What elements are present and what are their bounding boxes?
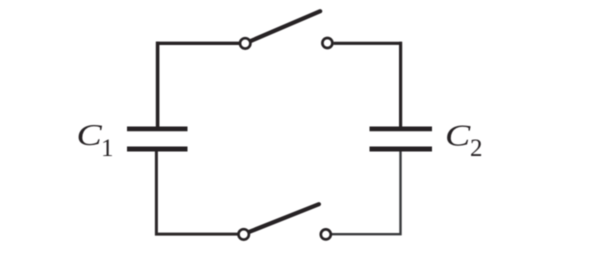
wire top-left horizontal — [156, 42, 239, 45]
switch S2 blade — [249, 204, 319, 232]
switch S1 right contact — [322, 38, 332, 48]
capacitor C2 bottom plate — [370, 147, 433, 152]
switch S2 right contact — [321, 229, 331, 239]
wire right vertical lower — [332, 150, 401, 234]
capacitor C2 top plate — [370, 126, 433, 131]
svg-text:2: 2 — [470, 135, 483, 162]
svg-text:1: 1 — [101, 135, 114, 162]
svg-text:C: C — [445, 119, 471, 153]
svg-text:C: C — [77, 118, 103, 152]
switch S2 left contact — [239, 229, 249, 239]
capacitor C1 top plate — [127, 126, 188, 131]
wire right vertical — [399, 42, 402, 128]
switch S1 blade — [251, 11, 320, 41]
wire left vertical — [156, 42, 160, 128]
wire left vertical lower — [156, 148, 237, 234]
wire top-right horizontal — [334, 42, 402, 45]
switch S1 left contact — [240, 38, 250, 48]
capacitor C1 bottom plate — [127, 147, 188, 152]
